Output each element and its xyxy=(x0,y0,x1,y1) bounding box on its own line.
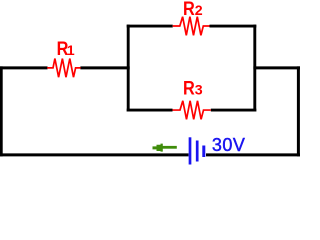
svg-text:2: 2 xyxy=(195,3,203,19)
svg-text:1: 1 xyxy=(67,43,75,59)
svg-text:R: R xyxy=(183,0,195,20)
svg-text:30V: 30V xyxy=(212,135,246,155)
svg-text:3: 3 xyxy=(195,83,203,99)
svg-text:R: R xyxy=(183,77,195,99)
